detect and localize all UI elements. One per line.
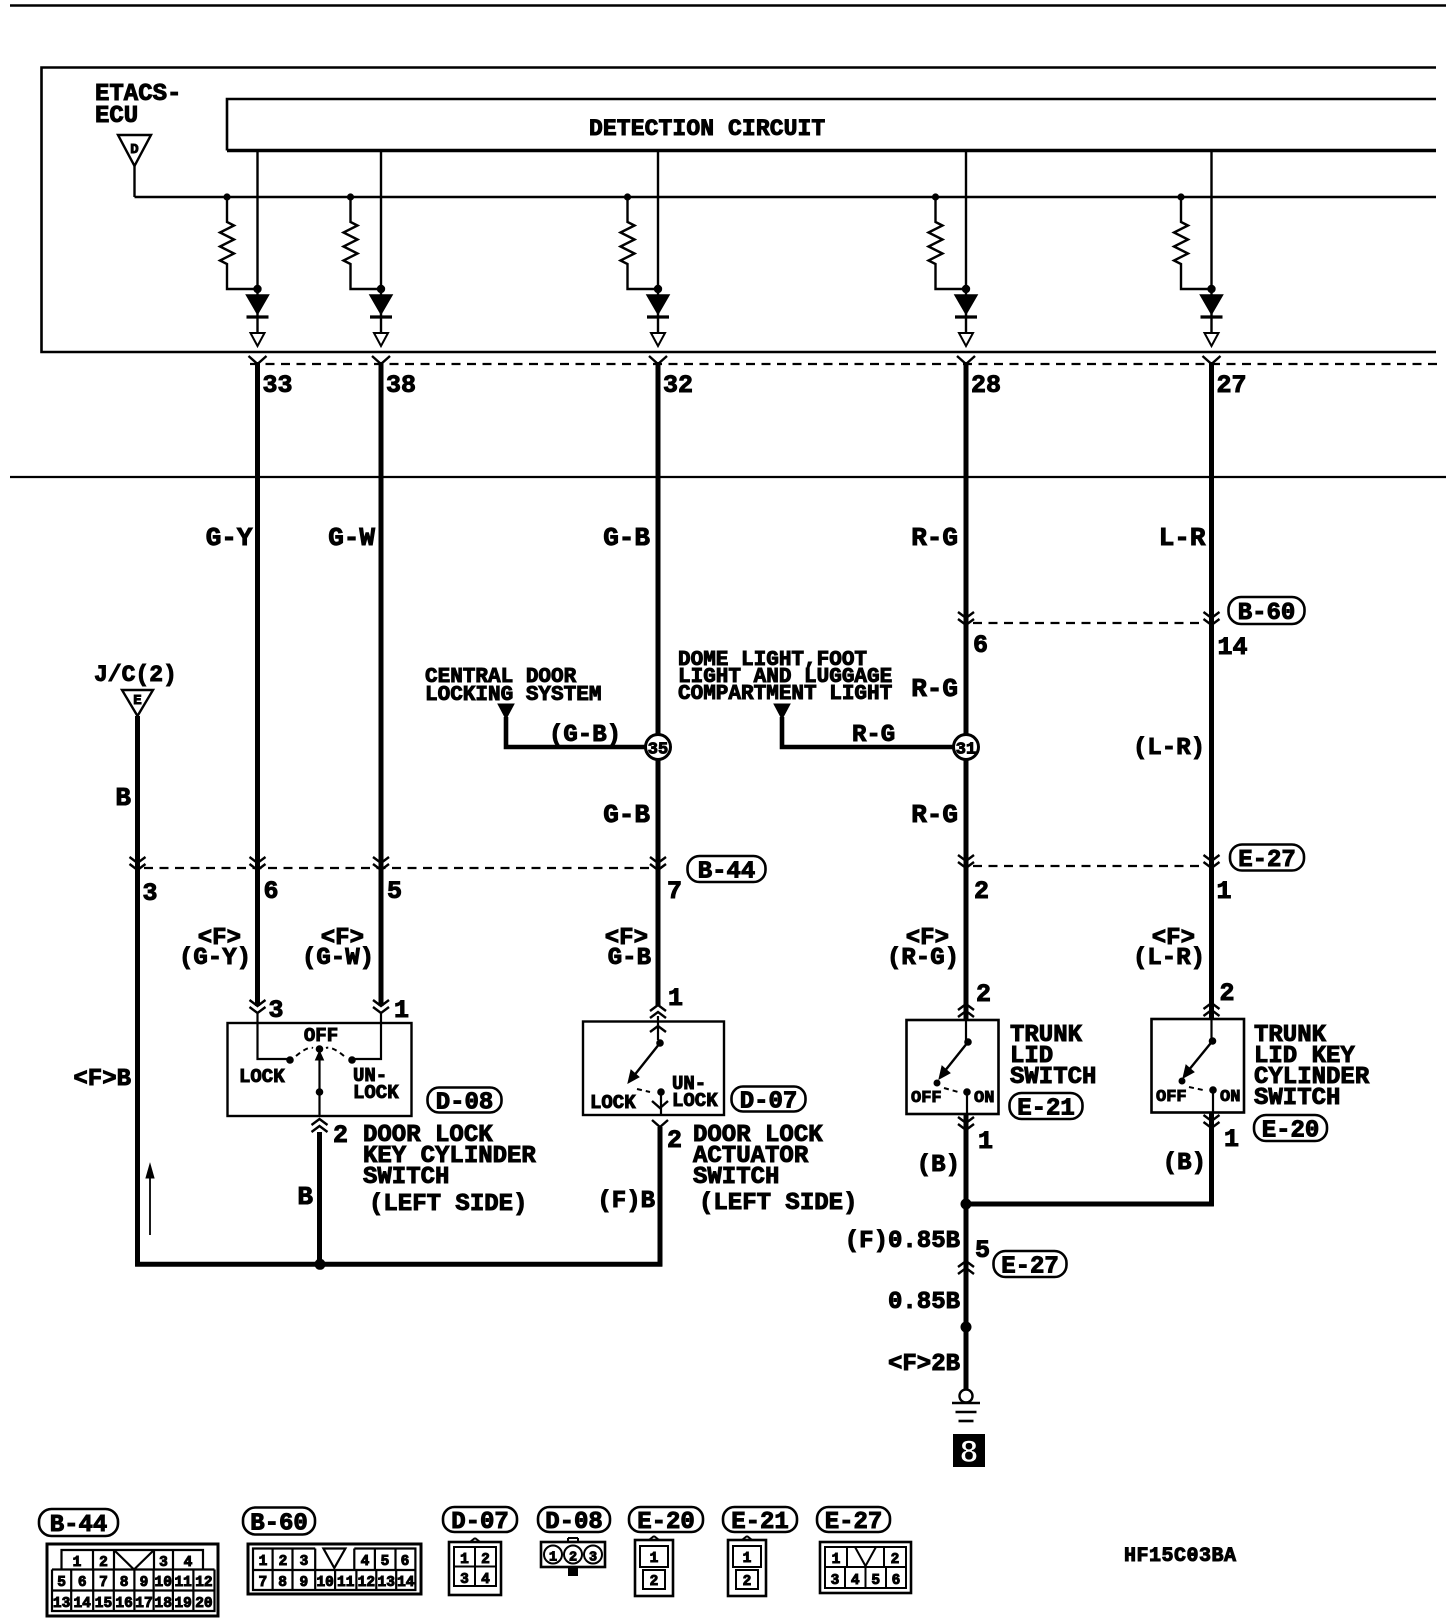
svg-text:(G-B): (G-B) [549,722,621,749]
wire (B) from E-21 [964,1130,969,1206]
terminal Y chevron pin 27 [1203,356,1221,364]
svg-text:R-G: R-G [911,800,958,830]
svg-text:COMPARTMENT LIGHT: COMPARTMENT LIGHT [678,683,892,706]
chevron E-27 pin 1 [1204,855,1220,861]
svg-text:G-W: G-W [328,523,375,553]
svg-text:7: 7 [667,877,682,906]
svg-text:8: 8 [959,1435,978,1472]
junction circle 35 [646,735,671,760]
svg-text:2: 2 [743,1574,752,1590]
svg-text:(B): (B) [917,1152,960,1179]
svg-text:B: B [297,1182,313,1212]
current direction arrow [149,1177,151,1235]
pointer triangle (central door locking) [498,704,514,719]
svg-text:2: 2 [650,1574,659,1590]
svg-text:1: 1 [1224,1125,1239,1154]
svg-text:5: 5 [57,1575,66,1591]
D-08 pin 2 exit chevron [312,1119,328,1125]
svg-text:OFF: OFF [1156,1088,1187,1107]
junction dot trunk wires [961,1199,972,1210]
E-21 switch arm [964,1038,972,1046]
ground reference box 8 [953,1434,985,1467]
connector symbol D (ETACS-ECU) [118,135,151,166]
svg-text:10: 10 [155,1575,172,1591]
wire R-G to junction 31 [782,717,954,747]
svg-text:(L-R): (L-R) [1133,945,1205,972]
svg-text:19: 19 [174,1596,191,1612]
chevron B-44 pin 6 [250,857,266,863]
D-07 pin 2 exit chevron [652,1120,668,1127]
junction circle 31 [954,735,979,760]
svg-text:E-20: E-20 [1262,1118,1320,1145]
svg-text:1: 1 [549,1551,557,1566]
svg-text:(L-R): (L-R) [1133,735,1205,762]
wire B from J/C(2) [135,716,140,1267]
svg-text:HF15C03BA: HF15C03BA [1124,1545,1237,1568]
wire: ground bus (left) [135,1262,662,1267]
connector pinout E-21 [728,1540,766,1596]
svg-text:3: 3 [143,879,158,908]
terminal arrow (pin 33) [251,333,265,346]
svg-text:J/C(2): J/C(2) [94,662,177,688]
chevron B-60 pin 6 [958,612,974,618]
detection circuit box [227,99,1436,151]
svg-text:L-R: L-R [1159,523,1206,553]
svg-text:14: 14 [397,1575,415,1591]
svg-text:G-Y: G-Y [206,523,253,553]
svg-text:12: 12 [358,1575,375,1591]
svg-text:5: 5 [381,1554,390,1570]
svg-text:G-B: G-B [603,523,650,553]
connector pinout D-08 [541,1542,605,1567]
svg-text:B: B [115,783,131,813]
wire: ECU pin 27 branch [1210,151,1212,334]
wire: ECU pin 38 branch [380,151,382,334]
wire (F)B from D-07 pin 2 [658,1127,663,1267]
svg-text:15: 15 [95,1596,112,1612]
svg-text:14: 14 [73,1596,91,1612]
svg-text:SWITCH: SWITCH [363,1164,449,1191]
wire: ECU internal bus from D [133,166,135,197]
svg-text:1: 1 [650,1551,659,1567]
svg-text:B-60: B-60 [1238,600,1296,627]
E-27 lower crossing chevron [958,1261,974,1267]
wire: ECU pin 28 branch [965,151,967,334]
resistor (pin 33 pull-up) [223,193,230,200]
svg-text:(G-W): (G-W) [302,945,374,972]
wire G-Y (pin 33) [255,362,260,1006]
chevron E-20 pin 2 [1204,1003,1220,1009]
E-21 pin 1 exit chevron [958,1117,974,1123]
connector label E-21 [1010,1093,1083,1119]
connector label B-60 (footer) [243,1508,315,1535]
svg-text:D-08: D-08 [545,1509,603,1536]
svg-text:5: 5 [975,1236,990,1265]
chevron D-08 pin 3 [250,1000,266,1006]
connector label B-44 (footer) [39,1509,118,1536]
svg-text:D: D [130,142,138,158]
svg-text:6: 6 [401,1554,410,1570]
switch E-20 box (trunk lid key cylinder switch) [1152,1019,1245,1113]
svg-text:B-44: B-44 [50,1512,108,1539]
connector pinout B-44 [47,1544,218,1616]
connector label E-21 (footer) [723,1507,797,1532]
D-08 internal wire pin3 to LOCK [258,1013,289,1059]
svg-text:32: 32 [663,371,693,400]
terminal Y chevron pin 28 [957,356,975,364]
ETACS-ECU box [42,68,1437,353]
svg-text:16: 16 [115,1596,132,1612]
svg-text:1: 1 [259,1554,268,1570]
junction dot (B wire) [315,1259,326,1270]
wire L-R (pin 27) [1209,362,1214,1204]
diode (pin 38) [377,285,385,293]
E-20 pin 1 exit chevron [1204,1115,1220,1121]
svg-text:E-27: E-27 [1238,847,1296,874]
svg-text:31: 31 [956,741,976,760]
terminal Y chevron pin 33 [249,356,267,364]
svg-text:(R-G): (R-G) [887,945,959,972]
svg-text:(B): (B) [1163,1150,1206,1177]
chevron B-44 pin 7 [650,857,666,863]
connector label E-20 (footer) [629,1507,703,1532]
chevron D-08 pin 1 [373,1000,389,1006]
ECU connector boundary (dashed) [250,363,1442,365]
svg-text:(F)B: (F)B [597,1188,655,1215]
svg-text:(F)0.85B: (F)0.85B [845,1228,960,1255]
connector label E-27 (lower) [994,1251,1067,1277]
svg-text:2: 2 [974,877,989,906]
svg-text:ECU: ECU [95,103,138,130]
svg-text:28: 28 [971,371,1001,400]
svg-text:D-07: D-07 [740,1089,798,1116]
switch E-21 box (trunk lid switch) [907,1020,999,1114]
svg-text:10: 10 [316,1575,333,1591]
wire (G-B) to junction 35 [506,717,646,747]
E-20 switch arm [1209,1037,1217,1045]
svg-text:3: 3 [300,1554,309,1570]
wire: ECU pin 32 branch [657,151,659,334]
svg-text:SWITCH: SWITCH [693,1164,779,1191]
svg-text:1: 1 [978,1127,993,1156]
page top border line [10,4,1446,6]
svg-text:3: 3 [460,1572,469,1588]
wire G-B (pin 32) [656,362,661,735]
connector label B-60 [1229,597,1305,624]
svg-text:B-60: B-60 [250,1511,308,1538]
D-08 internal wire pin1 to UN-LOCK [355,1013,381,1059]
svg-text:E-27: E-27 [1001,1254,1059,1281]
svg-text:1: 1 [1217,877,1232,906]
chevron B-44 pin 5 [373,857,389,863]
svg-text:DETECTION CIRCUIT: DETECTION CIRCUIT [589,116,825,142]
connector label D-08 [428,1088,502,1113]
connector label D-07 (footer) [443,1507,517,1532]
svg-text:(G-Y): (G-Y) [179,945,251,972]
wire B from D-08 pin 2 [317,1132,322,1267]
chevron D-07 pin 1 [650,1005,666,1011]
connector label E-27 (upper) [1230,845,1304,871]
svg-text:E-27: E-27 [825,1509,883,1536]
svg-text:3: 3 [589,1551,597,1566]
section divider line [10,476,1446,478]
junction dot 0.85B/2B [961,1322,972,1333]
svg-text:1: 1 [743,1551,752,1567]
connector E-27 crossing (dashed) [973,865,1204,867]
connector label E-27 (footer) [817,1507,890,1532]
svg-text:14: 14 [1218,633,1248,662]
svg-text:18: 18 [155,1596,172,1612]
svg-text:ON: ON [1220,1088,1240,1107]
resistor (pin 27 pull-up) [1177,193,1184,200]
svg-text:2: 2 [1220,979,1235,1008]
switch D-07 box [583,1022,724,1116]
terminal arrow (pin 38) [374,333,388,346]
svg-text:17: 17 [135,1596,152,1612]
chevron B-60 pin 14 [1204,612,1220,618]
svg-text:2: 2 [333,1121,348,1150]
svg-text:2: 2 [667,1126,682,1155]
svg-text:13: 13 [378,1575,395,1591]
wire R-G (pin 28) [964,362,969,735]
connector label D-07 [732,1087,806,1112]
svg-text:E-21: E-21 [1017,1096,1075,1123]
svg-text:SWITCH: SWITCH [1010,1064,1096,1091]
svg-text:11: 11 [174,1575,192,1591]
resistor (pin 28 pull-up) [932,193,939,200]
D-07 switch arm [656,1039,664,1047]
svg-text:3: 3 [831,1573,840,1589]
diode (pin 28) [962,285,970,293]
connector label D-08 (footer) [538,1507,610,1532]
connector B-60 crossing (dashed) [973,622,1204,624]
diode (pin 33) [253,285,261,293]
resistor (pin 32 pull-up) [624,193,631,200]
svg-text:G-B: G-B [603,800,650,830]
D-07 top internal chevron [650,1026,666,1032]
svg-text:2: 2 [569,1551,577,1566]
connector pinout D-07 [449,1542,501,1595]
terminal Y chevron pin 32 [649,356,667,364]
diode (pin 27) [1207,285,1215,293]
terminal arrow (pin 32) [651,333,665,346]
svg-text:B-44: B-44 [698,859,756,886]
svg-text:SWITCH: SWITCH [1254,1085,1340,1112]
svg-text:3: 3 [269,996,284,1025]
connector pinout E-20 [635,1540,673,1596]
D-07 pin 2 internal chevron [660,1092,662,1115]
connector label E-20 [1254,1115,1327,1141]
svg-text:D-07: D-07 [451,1509,509,1536]
svg-text:5: 5 [871,1573,880,1589]
svg-text:6: 6 [264,877,279,906]
terminal arrow (pin 27) [1205,333,1219,346]
svg-text:LOCK: LOCK [590,1092,636,1114]
chevron E-27 pin 2 [958,855,974,861]
svg-text:7: 7 [99,1575,108,1591]
svg-text:D-08: D-08 [436,1090,494,1117]
svg-text:1: 1 [832,1552,841,1568]
wire (F)0.85B down [964,1204,969,1390]
chevron B-44 pin 3 (J/C wire) [130,857,146,863]
svg-text:6: 6 [78,1575,87,1591]
terminal Y chevron pin 38 [372,356,390,364]
svg-text:R-G: R-G [911,523,958,553]
wire: trunk switches join [966,1202,1214,1207]
connector pinout B-60 [248,1544,421,1594]
svg-text:8: 8 [120,1575,129,1591]
svg-text:8: 8 [278,1575,287,1591]
svg-text:<F>2B: <F>2B [888,1351,960,1378]
svg-text:R-G: R-G [852,722,895,749]
svg-text:E-20: E-20 [637,1509,695,1536]
svg-text:9: 9 [140,1575,149,1591]
svg-text:LOCK: LOCK [239,1066,285,1088]
svg-text:4: 4 [851,1573,860,1589]
chevron E-21 pin 2 [958,1004,974,1010]
svg-text:9: 9 [299,1575,308,1591]
connector B-44 crossing (dashed) [144,867,651,869]
svg-text:6: 6 [973,631,988,660]
svg-text:7: 7 [258,1575,267,1591]
resistor (pin 38 pull-up) [347,193,354,200]
ground symbol [960,1390,973,1403]
D-08 switch arm (OFF position) [316,1045,324,1053]
svg-text:6: 6 [892,1573,901,1589]
svg-text:27: 27 [1217,371,1247,400]
connector label B-44 [688,856,766,882]
svg-text:E: E [133,693,141,709]
svg-text:20: 20 [195,1596,212,1612]
svg-text:12: 12 [195,1575,212,1591]
svg-text:2: 2 [481,1552,490,1568]
svg-text:1: 1 [668,984,683,1013]
svg-text:11: 11 [337,1575,355,1591]
wire G-W (pin 38) [379,362,384,1006]
svg-text:13: 13 [53,1596,70,1612]
svg-text:LOCK: LOCK [672,1090,718,1112]
svg-text:0.85B: 0.85B [888,1289,960,1316]
svg-text:LOCK: LOCK [353,1082,399,1104]
svg-text:(LEFT SIDE): (LEFT SIDE) [699,1190,857,1217]
svg-text:R-G: R-G [911,674,958,704]
svg-text:2: 2 [891,1552,900,1568]
svg-text:OFF: OFF [304,1025,338,1047]
diode (pin 32) [654,285,662,293]
svg-text:<F>B: <F>B [73,1066,131,1093]
svg-text:4: 4 [481,1572,490,1588]
svg-text:OFF: OFF [911,1089,942,1108]
svg-text:2: 2 [976,980,991,1009]
svg-text:(LEFT SIDE): (LEFT SIDE) [369,1191,527,1218]
svg-text:E-21: E-21 [731,1509,789,1536]
svg-text:33: 33 [263,371,293,400]
connector pinout E-27 [820,1542,911,1593]
svg-text:5: 5 [387,877,402,906]
svg-text:2: 2 [279,1554,288,1570]
svg-text:4: 4 [361,1554,370,1570]
svg-text:ON: ON [974,1089,994,1108]
terminal arrow (pin 28) [959,333,973,346]
pointer triangle (dome light) [774,704,790,719]
switch D-08 box [228,1023,412,1116]
svg-text:38: 38 [386,371,416,400]
wire (B) from E-20 [1209,1128,1214,1206]
wire: ECU pin 33 branch [256,151,258,334]
svg-text:1: 1 [460,1552,469,1568]
svg-text:1: 1 [394,996,409,1025]
svg-text:G-B: G-B [608,945,651,972]
svg-text:35: 35 [648,741,668,760]
